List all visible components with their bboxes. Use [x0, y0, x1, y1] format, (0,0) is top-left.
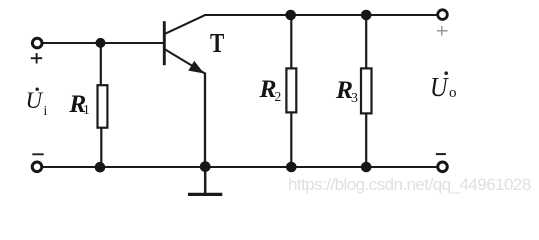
wire: input top wire from + terminal to transistor base [43, 42, 164, 44]
label T (transistor) [210, 29, 224, 57]
wire: R3 top branch [365, 15, 367, 69]
transistor T [164, 15, 205, 73]
label R1 [69, 91, 86, 117]
node: R2 bottom junction [286, 162, 297, 173]
emitter arrowhead [190, 62, 203, 72]
polarity - at output [436, 153, 446, 155]
label R3 [336, 77, 353, 103]
label U_o (output voltage) [430, 73, 447, 101]
wire: R1 bottom branch [100, 128, 102, 168]
wire: bottom rail [43, 166, 437, 168]
node: emitter / ground junction [200, 161, 211, 172]
label U_i (input voltage) [26, 89, 43, 112]
terminal: output + (open circle) [438, 10, 448, 20]
wire: top rail from collector bend to output + terminal [204, 14, 437, 16]
polarity + at output (faint) [437, 26, 448, 36]
terminal: input + (open circle) [32, 38, 42, 48]
wire: R3 bottom branch [365, 113, 367, 167]
watermark [288, 176, 531, 193]
wire: R1 top branch [100, 43, 102, 86]
resistor R2 [286, 68, 296, 112]
node: R2 top junction [285, 10, 296, 21]
terminal: input - (open circle) [32, 162, 42, 172]
terminal: output - (open circle) [438, 162, 448, 172]
node: R3 top junction [361, 10, 372, 21]
wire: emitter vertical down to bottom rail [204, 73, 206, 168]
polarity - at input [32, 153, 43, 155]
collector lead [165, 15, 205, 34]
emitter lead [165, 49, 205, 73]
base bar [163, 21, 166, 65]
resistor R3 [361, 68, 372, 113]
ground [188, 167, 222, 194]
wire: R2 bottom branch [290, 112, 292, 167]
node: R3 bottom junction [361, 162, 372, 173]
resistor R1 [98, 85, 108, 128]
node: R1 bottom junction [95, 162, 106, 173]
polarity + at input [31, 53, 42, 64]
label R2 [260, 76, 277, 102]
wire: R2 top branch [290, 15, 292, 69]
node: base wire / R1 top junction [96, 38, 106, 48]
